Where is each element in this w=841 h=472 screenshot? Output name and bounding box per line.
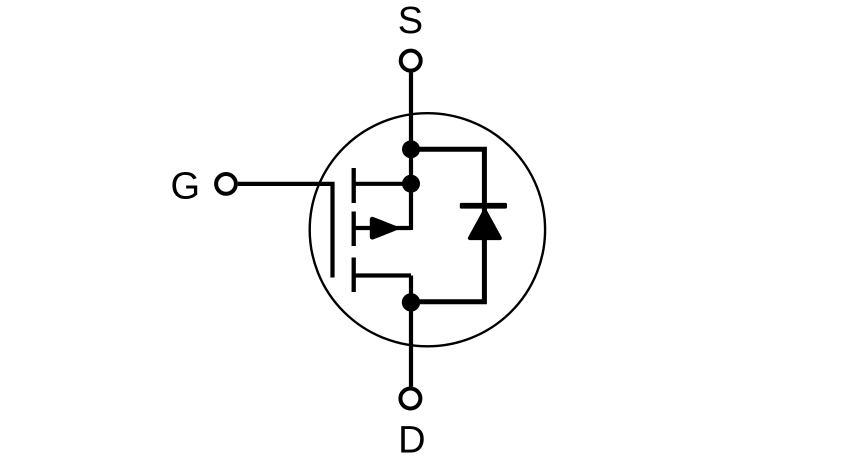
transistor envelope circle Q1 [310,113,545,346]
terminal D [400,389,420,409]
wire gate lead and gate electrode bar [238,184,333,278]
body diode D1 anode triangle [470,211,500,238]
body arrow (points toward drain rail, P-channel) [372,219,395,237]
wire diode branch (top, right side, bottom) [411,149,484,301]
wire top stub (source side) [354,182,411,186]
channel bar segment (body) [352,212,356,247]
channel bar segment (drain) [352,168,356,203]
terminal G [216,174,236,194]
wire bottom stub (drain side) [354,273,411,277]
svg-text:D: D [398,419,425,461]
channel bar segment (source) [352,258,356,293]
svg-text:S: S [398,0,423,42]
terminal S [401,51,421,71]
node junction dot 3 (drain/diode anode) [402,293,420,311]
body diode D1 cathode bar [460,203,507,209]
wire source rail (S terminal to body stub) [409,73,413,231]
wire drain rail (bottom stub to D terminal) [409,276,413,387]
svg-text:G: G [171,166,201,208]
node junction dot 2 (source stub) [402,175,420,193]
wire middle stub (body) [354,226,411,230]
node junction dot 1 (source/diode cathode) [402,140,420,158]
